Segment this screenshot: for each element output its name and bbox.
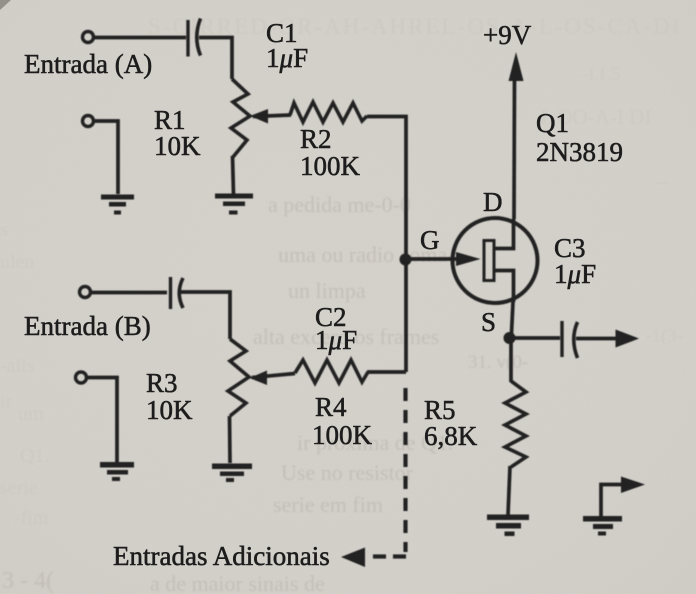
- svg-text:1μF: 1μF: [315, 325, 357, 355]
- wire: [180, 292, 230, 339]
- svg-text:um: um: [18, 403, 44, 425]
- svg-text:R4: R4: [315, 392, 347, 422]
- svg-text:-alis: -alis: [0, 355, 35, 377]
- capacitor C2: [169, 277, 172, 309]
- svg-text:S: S: [481, 307, 496, 337]
- svg-text:Entrada (A): Entrada (A): [24, 49, 152, 79]
- wire: [228, 416, 232, 463]
- wire source to S node: [511, 302, 513, 343]
- ground (R1): [215, 194, 253, 215]
- svg-text:Use no resistor: Use no resistor: [281, 460, 414, 485]
- svg-text:100K: 100K: [312, 420, 373, 450]
- svg-text:+9V: +9V: [483, 20, 532, 50]
- svg-text:10K: 10K: [146, 395, 193, 425]
- wiper arrow R1: [253, 115, 291, 117]
- ground (R3): [212, 464, 252, 483]
- node S junction: [504, 332, 516, 344]
- output arrow: [616, 330, 640, 348]
- terminal input B lower: [76, 372, 87, 383]
- svg-text:s: s: [0, 219, 8, 241]
- svg-text:ir: ir: [0, 391, 13, 413]
- wire: [87, 378, 117, 463]
- wire: [233, 156, 234, 194]
- svg-text:10K: 10K: [154, 131, 201, 161]
- svg-text:1μF: 1μF: [554, 259, 596, 289]
- wire: [94, 36, 186, 40]
- svg-text:serie: serie: [0, 477, 38, 499]
- corner mark top-left: [0, 0, 11, 10]
- wire: [199, 38, 232, 80]
- ground (input A): [101, 195, 134, 215]
- wire: [576, 337, 620, 341]
- svg-text:G: G: [420, 225, 440, 255]
- wire +9V line: [512, 78, 516, 219]
- svg-text:Q1.: Q1.: [20, 445, 49, 467]
- svg-text:--: --: [655, 171, 668, 193]
- resistor R4: [295, 360, 368, 383]
- svg-text:Entradas Adicionais: Entradas Adicionais: [113, 541, 330, 571]
- resistor R3 (potentiometer): [228, 339, 249, 416]
- wire: [367, 370, 406, 374]
- svg-text:R3: R3: [146, 368, 178, 398]
- svg-text:Q1: Q1: [536, 108, 569, 138]
- resistor R5: [509, 338, 513, 382]
- wiper arrow R3: [252, 374, 295, 378]
- svg-text:6,8K: 6,8K: [424, 421, 478, 451]
- svg-text:31. v(0-: 31. v(0-: [468, 352, 528, 373]
- svg-text:2N3819: 2N3819: [536, 137, 623, 167]
- svg-text:1μF: 1μF: [266, 43, 308, 73]
- node G junction: [400, 254, 412, 266]
- wire output: [511, 336, 560, 340]
- terminal input A lower: [83, 116, 94, 127]
- svg-text:serie em fim: serie em fim: [273, 492, 383, 517]
- svg-text:3 - 4(: 3 - 4(: [2, 568, 54, 594]
- wire: [91, 291, 167, 295]
- svg-text:un limpa: un limpa: [288, 278, 366, 303]
- resistor R1 (potentiometer): [231, 79, 250, 157]
- terminal input A top: [83, 32, 94, 43]
- ground with arrow (right): [601, 485, 625, 518]
- svg-text:a pedida me-0-0: a pedida me-0-0: [268, 192, 411, 217]
- ground (R5): [487, 515, 529, 537]
- +9V arrow: [509, 52, 524, 81]
- svg-text:-fim: -fim: [14, 507, 49, 529]
- capacitor C1: [186, 20, 189, 57]
- resistor R2: [290, 102, 367, 122]
- dashed wire to additional inputs: [366, 388, 406, 557]
- wire: [367, 117, 406, 373]
- wire: [94, 121, 118, 194]
- capacitor C3: [560, 321, 563, 357]
- terminal input B top: [80, 287, 91, 298]
- ground (input B): [100, 462, 134, 481]
- svg-text:ulen: ulen: [0, 251, 34, 273]
- svg-text:Entrada (B): Entrada (B): [24, 311, 151, 341]
- svg-text:S-CIRRED-OR-AH-AHREL-OS-A-L-OS: S-CIRRED-OR-AH-AHREL-OS-A-L-OS-CA-DI: [148, 14, 681, 39]
- svg-text:R2: R2: [300, 124, 332, 154]
- svg-text:-I.I.5: -I.I.5: [582, 64, 620, 85]
- transistor Q1: [453, 218, 538, 303]
- svg-text:100K: 100K: [300, 151, 361, 181]
- wire gate arrow: [406, 257, 458, 261]
- svg-text:D: D: [483, 187, 503, 217]
- svg-text:-1(3-: -1(3-: [645, 326, 683, 347]
- svg-text:a de maior sinais de: a de maior sinais de: [150, 571, 325, 594]
